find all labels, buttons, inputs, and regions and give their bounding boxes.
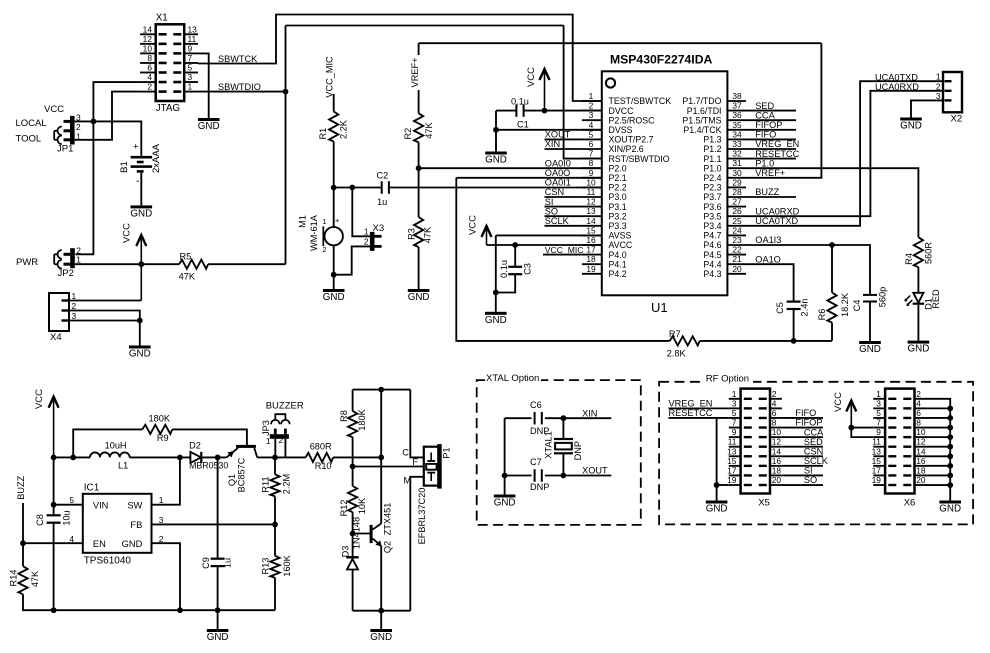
- svg-text:560p: 560p: [878, 287, 888, 307]
- svg-text:P2.0: P2.0: [609, 163, 627, 173]
- svg-text:5: 5: [188, 63, 193, 73]
- svg-text:GND: GND: [706, 504, 728, 515]
- svg-text:+: +: [335, 216, 340, 225]
- svg-text:X4: X4: [50, 332, 62, 343]
- svg-text:47K: 47K: [30, 570, 40, 587]
- svg-text:P3.0: P3.0: [609, 192, 627, 202]
- svg-text:16: 16: [916, 456, 926, 466]
- svg-text:P2.5/ROSC: P2.5/ROSC: [609, 115, 656, 125]
- svg-text:SED: SED: [804, 437, 823, 447]
- svg-text:2: 2: [936, 81, 941, 91]
- svg-text:OA0O: OA0O: [545, 168, 571, 178]
- svg-text:P2.2: P2.2: [609, 183, 627, 193]
- svg-text:3: 3: [159, 515, 164, 525]
- svg-text:C9: C9: [201, 557, 211, 569]
- svg-text:VCC: VCC: [833, 392, 844, 412]
- svg-text:FB: FB: [130, 520, 142, 530]
- svg-text:R9: R9: [157, 433, 169, 443]
- svg-text:GND: GND: [485, 315, 507, 326]
- svg-text:1: 1: [188, 82, 193, 92]
- svg-text:6: 6: [772, 408, 777, 418]
- svg-text:XOUT: XOUT: [582, 466, 608, 476]
- svg-text:M: M: [404, 476, 412, 486]
- svg-text:18.2K: 18.2K: [840, 292, 850, 317]
- svg-text:18: 18: [916, 465, 926, 475]
- svg-text:DNP: DNP: [530, 482, 549, 492]
- svg-text:DVCC: DVCC: [609, 106, 635, 116]
- svg-text:9: 9: [876, 427, 881, 437]
- svg-text:2: 2: [322, 245, 326, 254]
- svg-text:JP3: JP3: [261, 420, 271, 436]
- svg-text:9: 9: [589, 168, 594, 178]
- svg-text:R3: R3: [406, 228, 416, 240]
- svg-text:8: 8: [772, 418, 777, 428]
- svg-text:8: 8: [916, 418, 921, 428]
- svg-text:24: 24: [732, 225, 742, 235]
- svg-text:RED: RED: [931, 289, 941, 309]
- svg-text:VCC: VCC: [122, 223, 133, 243]
- svg-text:XIN: XIN: [582, 408, 597, 418]
- svg-text:P4.1: P4.1: [609, 259, 627, 269]
- svg-text:12: 12: [586, 197, 596, 207]
- svg-text:D2: D2: [189, 441, 201, 451]
- svg-text:1: 1: [732, 389, 737, 399]
- svg-text:SBWTDIO: SBWTDIO: [218, 82, 261, 92]
- svg-text:27: 27: [732, 197, 742, 207]
- svg-text:1: 1: [72, 291, 77, 301]
- svg-text:4: 4: [147, 72, 152, 82]
- svg-text:29: 29: [732, 177, 742, 187]
- svg-text:12: 12: [772, 437, 782, 447]
- svg-text:19: 19: [586, 264, 596, 274]
- svg-text:25: 25: [732, 216, 742, 226]
- svg-text:13: 13: [586, 206, 596, 216]
- svg-text:R2: R2: [403, 128, 413, 140]
- svg-text:20: 20: [732, 264, 742, 274]
- svg-text:VREF+: VREF+: [410, 58, 420, 88]
- svg-text:10: 10: [772, 427, 782, 437]
- svg-text:47K: 47K: [179, 271, 196, 281]
- svg-text:3: 3: [72, 311, 77, 321]
- svg-text:R5: R5: [180, 252, 192, 262]
- svg-text:GND: GND: [130, 208, 152, 219]
- svg-text:C7: C7: [530, 457, 542, 467]
- svg-text:X6: X6: [904, 497, 916, 508]
- svg-text:14: 14: [586, 216, 596, 226]
- svg-text:3: 3: [936, 91, 941, 101]
- svg-text:BUZZ: BUZZ: [16, 475, 26, 499]
- svg-text:3: 3: [876, 398, 881, 408]
- svg-text:P1.6/TDI: P1.6/TDI: [687, 106, 722, 116]
- svg-text:SO: SO: [545, 206, 558, 216]
- svg-text:5: 5: [876, 408, 881, 418]
- svg-text:U1: U1: [651, 300, 668, 315]
- svg-text:10K: 10K: [357, 497, 367, 514]
- svg-text:P3.5: P3.5: [703, 211, 721, 221]
- svg-text:P4.3: P4.3: [703, 269, 721, 279]
- svg-text:C5: C5: [775, 302, 785, 314]
- svg-text:XIN/P2.6: XIN/P2.6: [609, 144, 644, 154]
- svg-text:10u: 10u: [62, 510, 72, 525]
- svg-text:X5: X5: [758, 497, 770, 508]
- svg-text:P3.4: P3.4: [703, 221, 721, 231]
- svg-text:P1.4/TCK: P1.4/TCK: [683, 125, 721, 135]
- svg-text:P1.1: P1.1: [703, 154, 721, 164]
- svg-text:VCC: VCC: [44, 104, 64, 115]
- svg-text:2: 2: [72, 301, 77, 311]
- svg-text:XTAL Option: XTAL Option: [486, 373, 539, 384]
- svg-text:4: 4: [916, 398, 921, 408]
- svg-text:R6: R6: [817, 309, 827, 321]
- svg-text:P3.3: P3.3: [609, 221, 627, 231]
- svg-text:14: 14: [772, 446, 782, 456]
- svg-text:560R: 560R: [924, 242, 934, 264]
- svg-text:C1: C1: [517, 119, 529, 129]
- svg-text:13: 13: [188, 24, 198, 34]
- svg-text:SI: SI: [804, 466, 813, 476]
- svg-text:XOUT/P2.7: XOUT/P2.7: [609, 135, 654, 145]
- svg-text:SCLK: SCLK: [804, 456, 829, 466]
- svg-text:PWR: PWR: [16, 257, 38, 268]
- svg-text:VCC_MIC: VCC_MIC: [545, 245, 584, 255]
- svg-text:R11: R11: [261, 476, 271, 492]
- svg-text:GND: GND: [408, 292, 430, 303]
- svg-text:+: +: [133, 142, 139, 153]
- svg-text:L1: L1: [118, 461, 128, 471]
- svg-text:36: 36: [732, 110, 742, 120]
- svg-text:XIN: XIN: [545, 139, 560, 149]
- svg-text:R1: R1: [318, 128, 328, 140]
- svg-text:13: 13: [727, 446, 737, 456]
- svg-text:0.1u: 0.1u: [511, 96, 529, 106]
- svg-text:SO: SO: [804, 475, 817, 485]
- svg-text:R4: R4: [904, 253, 914, 265]
- svg-text:23: 23: [732, 235, 742, 245]
- svg-text:X1: X1: [156, 13, 168, 24]
- svg-text:1: 1: [322, 217, 326, 226]
- svg-text:11: 11: [728, 437, 737, 447]
- svg-text:-: -: [136, 175, 140, 187]
- svg-text:680R: 680R: [310, 442, 332, 452]
- svg-text:2.8K: 2.8K: [667, 349, 687, 359]
- svg-text:VREG_EN: VREG_EN: [755, 139, 799, 149]
- svg-text:P4.0: P4.0: [609, 250, 627, 260]
- svg-text:JP1: JP1: [57, 144, 73, 155]
- svg-text:P1: P1: [442, 447, 452, 458]
- svg-text:1: 1: [936, 72, 941, 82]
- svg-text:XTAL1: XTAL1: [543, 431, 553, 458]
- svg-text:11: 11: [188, 34, 197, 44]
- svg-text:P4.4: P4.4: [703, 259, 721, 269]
- svg-text:TEST/SBWTCK: TEST/SBWTCK: [609, 96, 672, 106]
- svg-text:8: 8: [589, 158, 594, 168]
- svg-text:VCC_MIC: VCC_MIC: [325, 56, 335, 98]
- svg-text:14: 14: [916, 446, 926, 456]
- svg-text:VREG_EN: VREG_EN: [669, 399, 713, 409]
- svg-text:17: 17: [586, 245, 596, 255]
- svg-text:VCC: VCC: [468, 215, 479, 235]
- svg-text:D3: D3: [341, 546, 351, 558]
- svg-text:DVSS: DVSS: [609, 125, 633, 135]
- svg-text:BUZZER: BUZZER: [266, 401, 304, 412]
- svg-text:30: 30: [732, 168, 742, 178]
- svg-text:5: 5: [589, 129, 594, 139]
- svg-text:R13: R13: [261, 558, 271, 575]
- svg-text:P4.7: P4.7: [703, 231, 721, 241]
- svg-text:P3.1: P3.1: [609, 202, 627, 212]
- svg-text:19: 19: [727, 475, 737, 485]
- svg-text:P2.3: P2.3: [703, 183, 721, 193]
- svg-text:C8: C8: [35, 514, 45, 526]
- svg-text:LOCAL: LOCAL: [16, 118, 47, 129]
- svg-text:28: 28: [732, 187, 742, 197]
- svg-text:2.2M: 2.2M: [282, 474, 292, 494]
- svg-text:MBR0530: MBR0530: [189, 461, 228, 471]
- svg-text:X2: X2: [951, 114, 963, 125]
- svg-text:20: 20: [772, 475, 782, 485]
- svg-text:RST/SBWTDIO: RST/SBWTDIO: [609, 154, 670, 164]
- svg-text:6: 6: [916, 408, 921, 418]
- svg-text:R7: R7: [669, 329, 681, 339]
- svg-text:31: 31: [732, 158, 742, 168]
- svg-text:SBWTCK: SBWTCK: [218, 54, 258, 64]
- svg-text:GND: GND: [900, 121, 922, 132]
- svg-text:P1.7/TDO: P1.7/TDO: [682, 96, 721, 106]
- svg-text:4: 4: [772, 398, 777, 408]
- svg-text:SI: SI: [545, 197, 554, 207]
- svg-text:GND: GND: [939, 504, 961, 515]
- svg-text:UCA0RXD: UCA0RXD: [875, 82, 919, 92]
- svg-text:47K: 47K: [423, 226, 433, 243]
- svg-text:FIFOP: FIFOP: [755, 120, 782, 130]
- svg-text:CCA: CCA: [804, 427, 824, 437]
- svg-text:16: 16: [772, 456, 782, 466]
- svg-text:2.2K: 2.2K: [339, 119, 349, 139]
- svg-text:FIFOP: FIFOP: [795, 418, 822, 428]
- svg-text:UCA0TXD: UCA0TXD: [755, 216, 798, 226]
- svg-text:FIFO: FIFO: [795, 408, 816, 418]
- svg-text:10uH: 10uH: [105, 441, 127, 451]
- svg-text:GND: GND: [198, 121, 220, 132]
- svg-text:P2.1: P2.1: [609, 173, 627, 183]
- svg-text:18: 18: [772, 465, 782, 475]
- svg-text:VCC: VCC: [526, 67, 537, 87]
- svg-text:34: 34: [732, 129, 742, 139]
- svg-text:P4.2: P4.2: [609, 269, 627, 279]
- svg-text:P4.6: P4.6: [703, 240, 721, 250]
- svg-text:P1.5/TMS: P1.5/TMS: [682, 115, 721, 125]
- svg-text:C6: C6: [530, 400, 542, 410]
- svg-text:Q2: Q2: [383, 541, 393, 553]
- svg-text:P4.5: P4.5: [703, 250, 721, 260]
- svg-text:3: 3: [188, 72, 193, 82]
- svg-text:1: 1: [876, 389, 881, 399]
- svg-text:1: 1: [159, 495, 164, 505]
- svg-text:ZTX451: ZTX451: [383, 503, 393, 536]
- svg-text:3: 3: [732, 398, 737, 408]
- svg-text:16: 16: [586, 235, 596, 245]
- svg-text:GND: GND: [207, 632, 229, 643]
- svg-text:38: 38: [732, 91, 742, 101]
- svg-text:1: 1: [364, 227, 369, 237]
- svg-text:RESETCC: RESETCC: [669, 408, 713, 418]
- svg-text:32: 32: [732, 149, 742, 159]
- svg-text:Q1: Q1: [227, 474, 237, 486]
- svg-text:UCA0TXD: UCA0TXD: [875, 72, 918, 82]
- svg-text:180K: 180K: [357, 408, 367, 430]
- svg-text:IC1: IC1: [84, 483, 100, 494]
- svg-text:9: 9: [188, 43, 193, 53]
- svg-text:160K: 160K: [282, 554, 292, 576]
- svg-text:8: 8: [147, 53, 152, 63]
- svg-text:2: 2: [589, 101, 594, 111]
- svg-text:10: 10: [586, 177, 596, 187]
- svg-text:GND: GND: [323, 292, 345, 303]
- svg-text:17: 17: [872, 465, 882, 475]
- svg-text:19: 19: [872, 475, 882, 485]
- svg-text:M1: M1: [298, 215, 308, 228]
- svg-text:C3: C3: [523, 263, 533, 275]
- svg-text:BUZZ: BUZZ: [755, 187, 779, 197]
- svg-text:6: 6: [589, 139, 594, 149]
- svg-text:R10: R10: [315, 461, 332, 471]
- svg-text:AVCC: AVCC: [609, 240, 633, 250]
- svg-text:2: 2: [364, 237, 369, 247]
- svg-text:MSP430F2274IDA: MSP430F2274IDA: [610, 53, 712, 67]
- svg-text:37: 37: [732, 101, 742, 111]
- svg-text:SW: SW: [127, 501, 142, 511]
- svg-text:CSN: CSN: [545, 187, 564, 197]
- svg-text:20: 20: [916, 475, 926, 485]
- svg-text:RF Option: RF Option: [706, 374, 749, 385]
- svg-text:15: 15: [727, 456, 737, 466]
- svg-text:7: 7: [188, 53, 193, 63]
- svg-text:SED: SED: [755, 101, 774, 111]
- svg-text:R12: R12: [339, 500, 349, 517]
- svg-text:21: 21: [732, 254, 742, 264]
- svg-text:2: 2: [772, 389, 777, 399]
- svg-text:2: 2: [916, 389, 921, 399]
- svg-text:15: 15: [872, 456, 882, 466]
- svg-text:X3: X3: [373, 223, 385, 234]
- svg-text:13: 13: [872, 446, 882, 456]
- svg-text:15: 15: [586, 225, 596, 235]
- svg-text:VREF+: VREF+: [755, 168, 785, 178]
- svg-text:JTAG: JTAG: [156, 103, 180, 114]
- svg-text:7: 7: [732, 418, 737, 428]
- svg-text:WM-61A: WM-61A: [309, 214, 319, 251]
- svg-text:SCLK: SCLK: [545, 216, 570, 226]
- svg-text:P2.4: P2.4: [703, 173, 721, 183]
- svg-text:VIN: VIN: [93, 501, 109, 511]
- svg-text:TPS61040: TPS61040: [84, 556, 132, 567]
- svg-text:10: 10: [143, 43, 153, 53]
- svg-text:P1.0: P1.0: [755, 158, 774, 168]
- svg-text:GND: GND: [485, 155, 507, 166]
- svg-text:47K: 47K: [424, 121, 434, 138]
- svg-text:C4: C4: [852, 300, 862, 312]
- svg-text:22: 22: [732, 245, 742, 255]
- svg-text:P1.3: P1.3: [703, 135, 721, 145]
- svg-text:P1.2: P1.2: [703, 144, 721, 154]
- svg-text:EN: EN: [93, 539, 106, 549]
- svg-text:OA1I3: OA1I3: [755, 235, 781, 245]
- svg-text:F: F: [412, 457, 418, 467]
- svg-text:17: 17: [727, 465, 737, 475]
- svg-text:14: 14: [143, 24, 153, 34]
- svg-text:2: 2: [279, 435, 284, 445]
- svg-text:5: 5: [732, 408, 737, 418]
- svg-text:33: 33: [732, 139, 742, 149]
- svg-text:RESETCC: RESETCC: [755, 149, 799, 159]
- svg-text:B1: B1: [119, 161, 130, 173]
- svg-text:7: 7: [876, 418, 881, 428]
- svg-text:GND: GND: [370, 632, 392, 643]
- svg-text:CCA: CCA: [755, 110, 775, 120]
- svg-text:C: C: [402, 447, 409, 457]
- svg-text:11: 11: [872, 437, 881, 447]
- svg-text:R14: R14: [9, 570, 19, 587]
- svg-text:35: 35: [732, 120, 742, 130]
- svg-text:CSN: CSN: [804, 446, 823, 456]
- svg-text:TOOL: TOOL: [16, 134, 42, 145]
- svg-text:1: 1: [589, 91, 594, 101]
- svg-text:4: 4: [589, 120, 594, 130]
- svg-text:180K: 180K: [149, 414, 171, 424]
- svg-text:3: 3: [76, 113, 81, 123]
- svg-text:3: 3: [589, 110, 594, 120]
- svg-text:OA0I1: OA0I1: [545, 178, 571, 188]
- svg-text:FIFO: FIFO: [755, 130, 776, 140]
- svg-text:1N4148: 1N4148: [352, 517, 362, 549]
- svg-text:1: 1: [266, 436, 271, 446]
- svg-text:VCC: VCC: [34, 389, 45, 409]
- svg-text:AVSS: AVSS: [609, 231, 632, 241]
- svg-text:6: 6: [147, 63, 152, 73]
- svg-text:2.4n: 2.4n: [800, 299, 810, 317]
- svg-text:XOUT: XOUT: [545, 130, 571, 140]
- svg-text:2xAAA: 2xAAA: [151, 143, 162, 173]
- svg-text:GND: GND: [122, 539, 143, 549]
- svg-text:P3.7: P3.7: [703, 192, 721, 202]
- svg-text:1u: 1u: [377, 197, 387, 207]
- svg-text:0.1u: 0.1u: [499, 260, 509, 278]
- svg-text:UCA0RXD: UCA0RXD: [755, 206, 799, 216]
- svg-text:5: 5: [69, 495, 74, 505]
- svg-text:26: 26: [732, 206, 742, 216]
- svg-text:GND: GND: [859, 344, 881, 355]
- svg-text:9: 9: [732, 427, 737, 437]
- svg-text:18: 18: [586, 254, 596, 264]
- svg-text:12: 12: [916, 437, 926, 447]
- svg-text:EFBRL37C20: EFBRL37C20: [417, 488, 427, 545]
- svg-text:2: 2: [147, 82, 152, 92]
- svg-text:BC857C: BC857C: [237, 457, 247, 492]
- svg-text:GND: GND: [129, 349, 151, 360]
- svg-text:10: 10: [916, 427, 926, 437]
- svg-text:GND: GND: [908, 344, 930, 355]
- svg-text:OA1O: OA1O: [755, 254, 781, 264]
- svg-text:C2: C2: [377, 171, 389, 181]
- svg-text:OA0I0: OA0I0: [545, 158, 571, 168]
- svg-text:12: 12: [143, 34, 153, 44]
- svg-text:1u: 1u: [223, 558, 233, 568]
- svg-text:1: 1: [76, 131, 81, 141]
- svg-text:1: 1: [76, 255, 81, 265]
- svg-text:P3.6: P3.6: [703, 202, 721, 212]
- svg-text:GND: GND: [494, 498, 516, 509]
- svg-text:DNP: DNP: [573, 441, 583, 460]
